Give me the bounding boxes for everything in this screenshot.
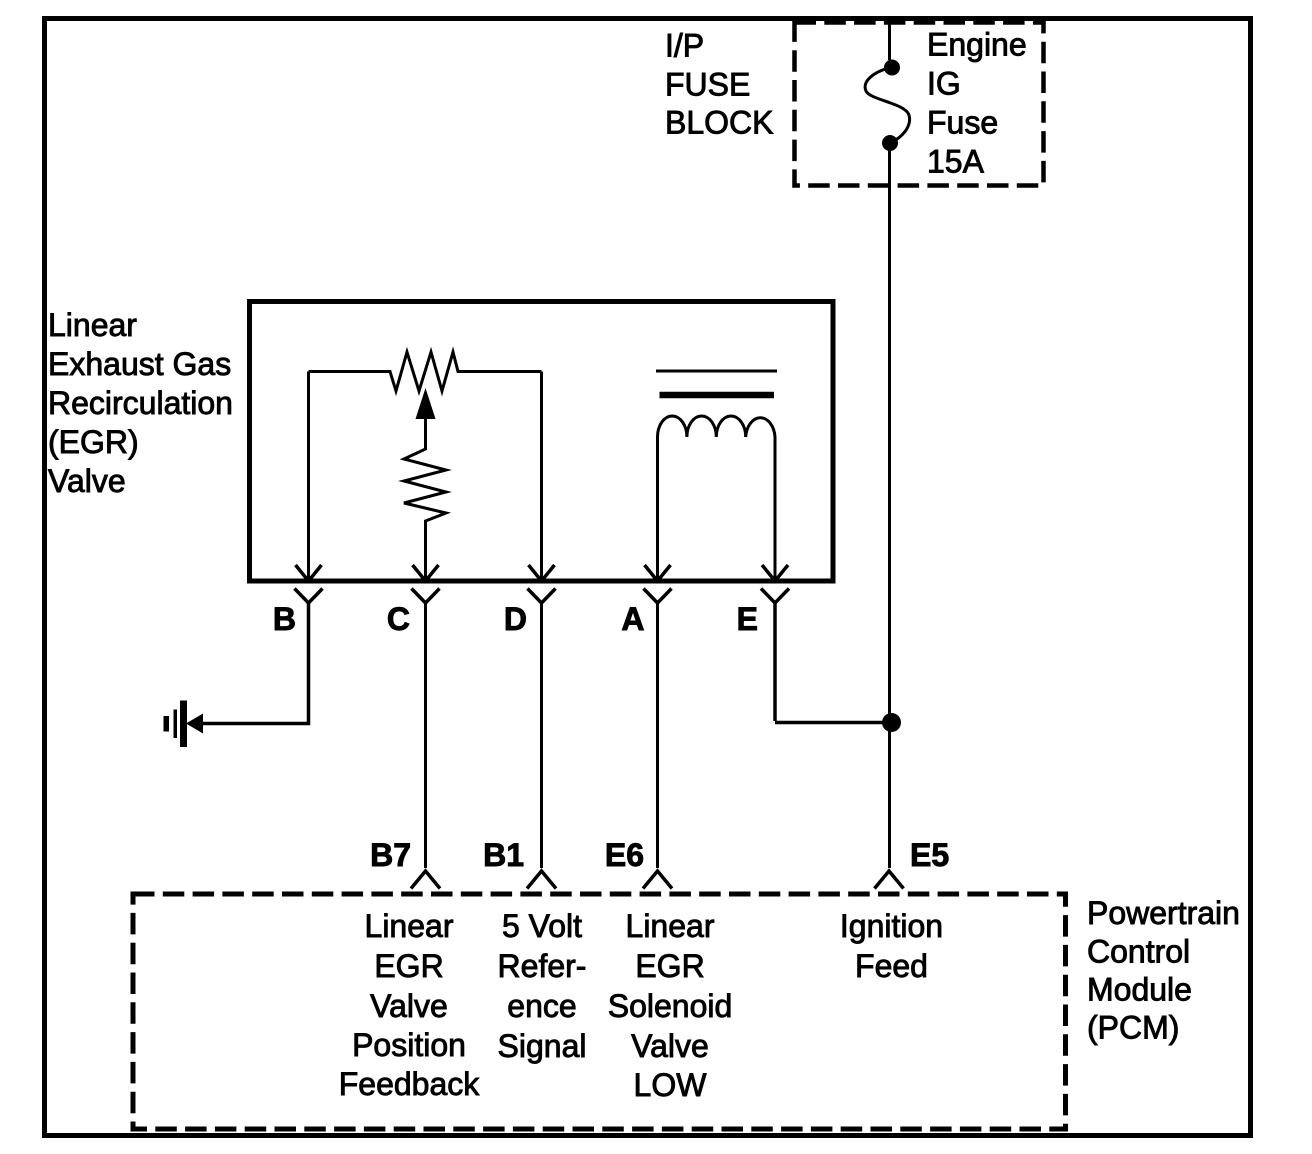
svg-text:B7: B7 [370,837,411,873]
svg-text:Valve: Valve [631,1028,709,1064]
svg-text:Linear: Linear [365,908,454,944]
svg-text:E: E [737,601,758,637]
svg-text:Signal: Signal [498,1028,587,1064]
svg-text:E6: E6 [605,837,644,873]
svg-text:ence: ence [507,988,576,1024]
svg-text:Fuse: Fuse [927,105,998,141]
svg-text:D: D [504,601,527,637]
svg-text:5 Volt: 5 Volt [502,908,582,944]
svg-text:Position: Position [352,1027,466,1063]
svg-text:Linear: Linear [626,908,715,944]
svg-text:Valve: Valve [370,988,448,1024]
svg-text:Solenoid: Solenoid [608,988,733,1024]
svg-text:Refer-: Refer- [498,948,587,984]
svg-text:Powertrain: Powertrain [1087,895,1240,931]
svg-text:BLOCK: BLOCK [665,105,773,141]
svg-text:C: C [387,601,410,637]
svg-text:B1: B1 [483,837,524,873]
svg-text:15A: 15A [927,144,985,180]
svg-text:Feedback: Feedback [339,1066,481,1102]
svg-text:Ignition: Ignition [840,908,943,944]
svg-text:LOW: LOW [634,1067,708,1103]
svg-text:Exhaust Gas: Exhaust Gas [48,346,231,382]
svg-text:B: B [273,601,296,637]
svg-text:IG: IG [927,66,961,102]
svg-text:Linear: Linear [48,307,137,343]
svg-text:Engine: Engine [927,27,1027,63]
svg-text:(PCM): (PCM) [1087,1010,1179,1046]
svg-text:I/P: I/P [665,28,704,64]
svg-text:E5: E5 [910,837,949,873]
svg-text:Recirculation: Recirculation [48,385,233,421]
svg-text:Valve: Valve [48,463,126,499]
svg-text:EGR: EGR [374,948,443,984]
svg-text:Feed: Feed [855,948,928,984]
svg-text:Module: Module [1087,972,1192,1008]
svg-text:(EGR): (EGR) [48,424,139,460]
svg-text:FUSE: FUSE [665,67,750,103]
svg-text:Control: Control [1087,934,1190,970]
svg-text:EGR: EGR [635,948,704,984]
svg-text:A: A [621,601,644,637]
